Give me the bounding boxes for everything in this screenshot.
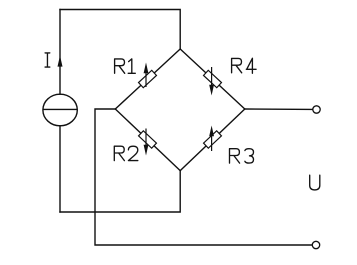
wire bridge arm R4 — [180, 49, 245, 109]
wire left corner to lower output — [95, 109, 312, 245]
resistor R2 arrow (down) — [144, 129, 149, 156]
wire bridge arm R2 — [115, 109, 180, 171]
wire bridge arm R1 — [115, 49, 180, 109]
label R3 — [230, 149, 254, 163]
resistor R3 body — [204, 131, 222, 148]
resistor R3 arrow (up) — [209, 126, 214, 152]
resistor R4 arrow (down) — [209, 67, 214, 96]
resistor R1 body — [139, 70, 157, 87]
label R4 — [232, 58, 257, 73]
wire left vertical (source bottom) — [59, 126, 61, 212]
terminal upper output — [313, 106, 320, 113]
label R1 — [115, 59, 136, 73]
label I — [45, 53, 50, 67]
resistor R1 arrow (up) — [144, 63, 149, 88]
current source I — [43, 94, 77, 126]
wire top rail — [60, 10, 180, 50]
wire left vertical (source top) — [59, 10, 61, 95]
wire bridge arm R3 — [180, 109, 245, 171]
wire bottom rail to bridge — [60, 171, 180, 212]
wire right corner to upper output — [245, 108, 313, 110]
resistor R2 body — [139, 131, 157, 148]
current direction arrow (up) — [58, 56, 63, 67]
label R2 — [114, 146, 138, 160]
resistor R4 body — [204, 70, 222, 87]
terminal lower output — [312, 241, 319, 248]
label U — [310, 175, 320, 190]
